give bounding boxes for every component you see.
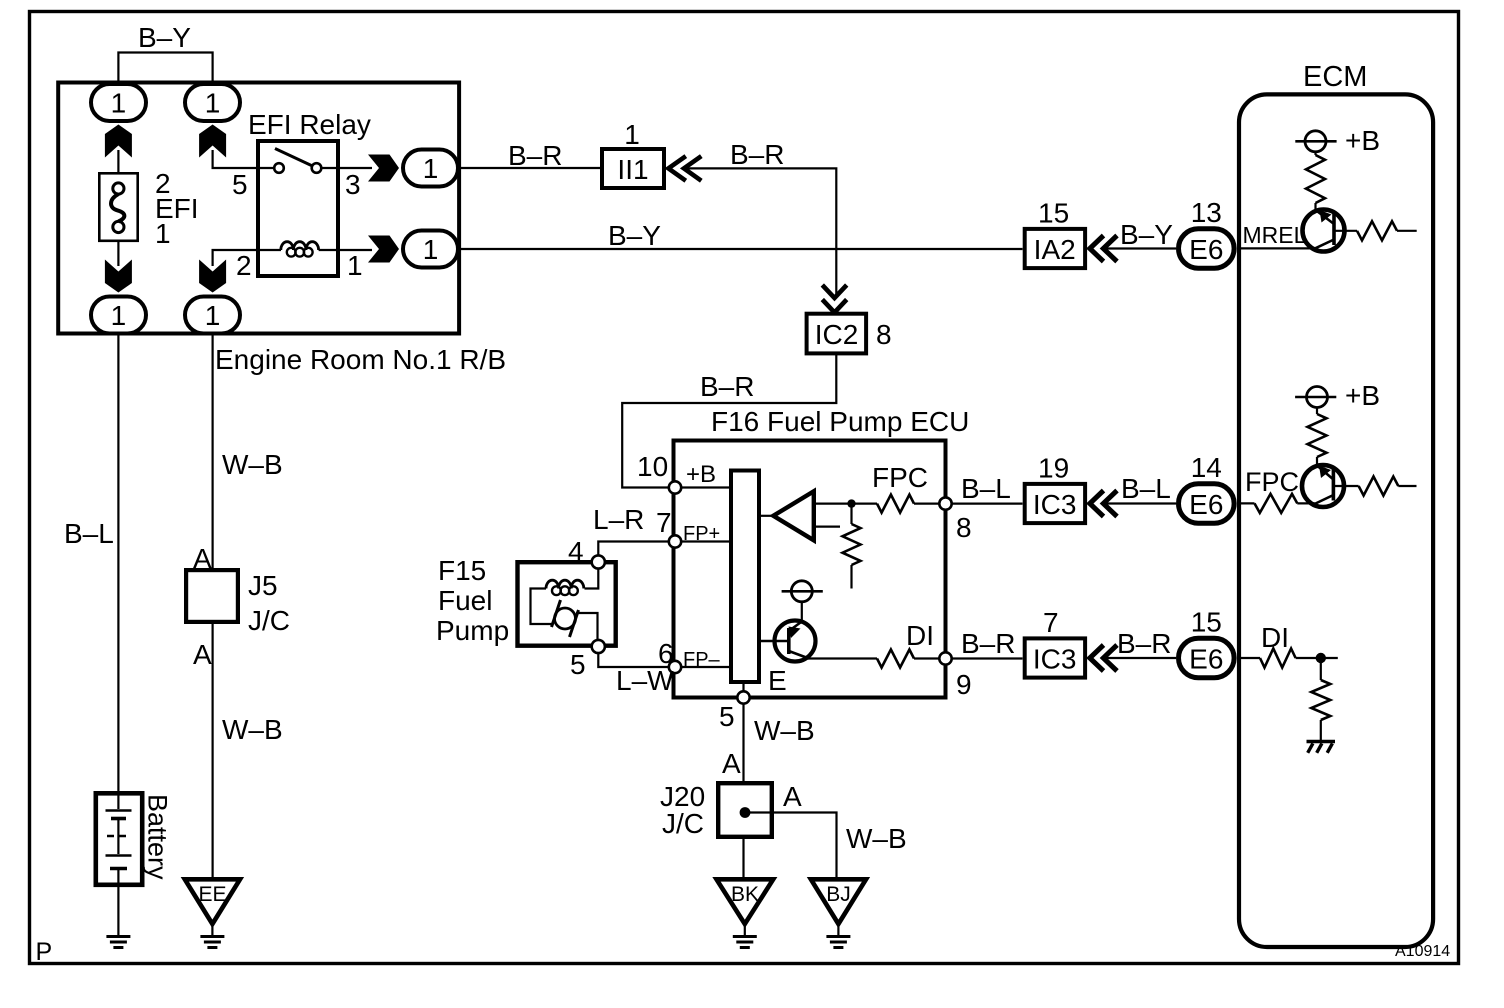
svg-text:EE: EE xyxy=(198,883,226,906)
resistor (+B to Q3) xyxy=(1308,408,1327,467)
ECU internal IC bar xyxy=(731,471,759,683)
wire MREL xyxy=(1237,247,1316,249)
svg-text:IC3: IC3 xyxy=(1033,644,1077,675)
svg-text:15: 15 xyxy=(1191,607,1222,638)
wire B-R (pin 9 to IC3) xyxy=(952,657,1023,659)
ECM box xyxy=(1239,61,1433,947)
wire to IC3 pin 19 xyxy=(1105,502,1176,504)
chevron arrows into IC3 xyxy=(1090,491,1117,517)
svg-text:1: 1 xyxy=(111,300,127,331)
svg-text:B–L: B–L xyxy=(64,518,114,549)
svg-text:A: A xyxy=(783,781,802,812)
svg-text:IA2: IA2 xyxy=(1034,234,1076,265)
svg-text:5: 5 xyxy=(570,649,586,680)
svg-text:E6: E6 xyxy=(1189,489,1223,520)
svg-text:+B: +B xyxy=(686,461,716,488)
pump internal wiring xyxy=(531,568,599,640)
svg-text:W–B: W–B xyxy=(846,823,907,854)
wire to IA2 pin 15 xyxy=(1105,247,1176,249)
wire B-R (II1 to IC2) xyxy=(687,168,836,296)
wire to IC3 pin 7 xyxy=(1105,657,1176,659)
svg-text:FPC: FPC xyxy=(1245,467,1299,497)
svg-text:1: 1 xyxy=(423,234,439,265)
svg-text:IC3: IC3 xyxy=(1033,489,1077,520)
arrow right into connector (pin1 row) xyxy=(368,236,399,263)
svg-text:FP+: FP+ xyxy=(683,523,720,545)
ground EE xyxy=(185,879,240,947)
resistor (Q3 base) xyxy=(1333,477,1416,496)
ground BJ xyxy=(811,879,866,947)
connector 1 (bottom left) xyxy=(91,297,146,334)
svg-text:1: 1 xyxy=(423,153,439,184)
pin 6 FP- node xyxy=(658,638,729,673)
svg-text:B–Y: B–Y xyxy=(1120,219,1173,250)
svg-text:10: 10 xyxy=(637,451,668,482)
junction dot (DI) xyxy=(1316,653,1326,663)
connector 1 (bottom mid) xyxy=(185,297,240,334)
svg-text:15: 15 xyxy=(1038,198,1069,229)
pin 10 +B node xyxy=(637,451,729,494)
transistor Q2 (MREL driver) xyxy=(1303,210,1345,252)
battery xyxy=(96,791,142,887)
svg-text:+B: +B xyxy=(1345,125,1380,156)
svg-text:1: 1 xyxy=(205,88,221,119)
ground BK xyxy=(717,879,774,947)
arrow up into top-mid connector xyxy=(199,125,226,158)
svg-text:1: 1 xyxy=(111,88,127,119)
svg-text:Engine Room No.1 R/B: Engine Room No.1 R/B xyxy=(215,344,506,375)
junction connector J20 J/C xyxy=(660,781,772,839)
connector E6 pin 14 xyxy=(1179,452,1235,523)
svg-text:E6: E6 xyxy=(1189,234,1223,265)
svg-text:8: 8 xyxy=(876,319,892,350)
svg-text:DI: DI xyxy=(906,620,934,651)
resistor (DI input) xyxy=(1237,649,1338,668)
svg-text:14: 14 xyxy=(1191,452,1222,483)
svg-text:B–R: B–R xyxy=(730,139,784,170)
power +B symbol (MREL driver) xyxy=(1295,125,1380,156)
wire relay pin2 xyxy=(213,250,256,266)
transistor Q3 (FPC driver) xyxy=(1302,465,1344,507)
svg-text:13: 13 xyxy=(1191,197,1222,228)
connector IC3 pin 19 xyxy=(1025,453,1085,524)
pump pin 4 node xyxy=(568,536,605,569)
pin E node 5 xyxy=(719,665,787,732)
svg-text:J/C: J/C xyxy=(248,605,290,636)
wire W-B (E pin to J20/BK) xyxy=(742,704,744,878)
svg-text:A: A xyxy=(193,639,212,670)
wire battery to ground xyxy=(117,887,119,936)
svg-text:J/C: J/C xyxy=(662,808,704,839)
connector IC2 pin 8 xyxy=(807,314,892,354)
pin 7 FP+ node xyxy=(656,507,729,548)
svg-text:FPC: FPC xyxy=(872,462,928,493)
wire relay pin5 xyxy=(213,150,256,168)
connector 1 (relay output B-R) xyxy=(403,150,458,187)
transistor Q1 (in ECU) xyxy=(761,621,816,662)
svg-text:W–B: W–B xyxy=(754,715,815,746)
resistor (DI pulldown) xyxy=(1311,658,1330,742)
junction block Engine Room No.1 R/B xyxy=(58,83,506,376)
svg-text:DI: DI xyxy=(1261,622,1289,653)
svg-text:Pump: Pump xyxy=(436,615,509,646)
wire B-R (IC2 to fuel pump ECU +B) xyxy=(622,355,836,488)
svg-text:B–R: B–R xyxy=(1117,628,1171,659)
wire W-B (J20 to BJ) xyxy=(745,813,837,878)
wire W-B junction run xyxy=(212,336,214,878)
arrow right into connector (pin3 row) xyxy=(368,155,399,182)
svg-text:A10914: A10914 xyxy=(1395,943,1450,960)
svg-text:Battery: Battery xyxy=(143,794,173,880)
wire fuse column xyxy=(117,150,119,184)
connector 1 (relay output B-Y) xyxy=(403,231,458,268)
wire L-W (pump pin 5 to FP-) xyxy=(598,654,669,668)
chevron arrows into IA2 xyxy=(1090,236,1117,262)
svg-text:B–Y: B–Y xyxy=(138,22,191,53)
arrow down into bottom-mid connector xyxy=(199,260,226,293)
svg-text:L–W: L–W xyxy=(616,665,674,696)
connector 1 (top left) xyxy=(91,84,146,121)
svg-text:E6: E6 xyxy=(1189,644,1223,675)
svg-text:II1: II1 xyxy=(617,154,648,185)
arrow down into bottom-left connector xyxy=(105,260,132,293)
svg-text:19: 19 xyxy=(1038,453,1069,484)
resistor FPC (in ECU) xyxy=(852,495,941,513)
svg-text:EFI Relay: EFI Relay xyxy=(248,109,371,140)
junction connector J5 J/C xyxy=(186,570,290,636)
svg-text:E: E xyxy=(768,665,787,696)
resistor (+B to Q2) xyxy=(1306,152,1325,211)
svg-text:3: 3 xyxy=(345,169,361,200)
svg-text:1: 1 xyxy=(347,250,363,281)
svg-text:W–B: W–B xyxy=(222,449,283,480)
resistor (Q2 base) xyxy=(1334,221,1417,240)
svg-text:FP–: FP– xyxy=(683,649,721,671)
svg-text:4: 4 xyxy=(568,536,584,567)
svg-text:8: 8 xyxy=(956,512,972,543)
collector supply symbol (circle) xyxy=(782,581,823,622)
connector E6 pin 13 xyxy=(1179,197,1235,268)
wire relay pin3 to connector xyxy=(340,167,372,169)
svg-text:9: 9 xyxy=(956,669,972,700)
fuel pump F15 box xyxy=(436,555,616,646)
svg-text:Fuel: Fuel xyxy=(438,585,492,616)
chevron arrows into IC2 xyxy=(822,285,846,313)
connector E6 pin 15 xyxy=(1179,607,1235,678)
svg-text:5: 5 xyxy=(232,169,248,200)
wire B-Y jumper loop xyxy=(118,53,212,85)
svg-text:1: 1 xyxy=(624,119,640,150)
wire B-Y (relay to IA2) xyxy=(461,248,1023,250)
svg-text:B–L: B–L xyxy=(961,473,1011,504)
svg-text:B–R: B–R xyxy=(700,371,754,402)
ECU F16 Fuel Pump ECU box xyxy=(674,406,970,698)
relay switch contact xyxy=(256,149,340,173)
svg-text:F15: F15 xyxy=(438,555,486,586)
junction dot (J20) xyxy=(740,807,751,818)
wire relay pin1 to connector xyxy=(340,249,372,251)
svg-text:2: 2 xyxy=(236,250,252,281)
resistor (op-amp bias, vertical) xyxy=(843,504,861,589)
svg-text:1: 1 xyxy=(205,300,221,331)
wire B-L battery feed xyxy=(117,336,119,793)
wire DI (transistor to pin 9) xyxy=(806,657,877,659)
label 2 EFI 1 (fuse) xyxy=(155,168,199,249)
relay EFI Relay xyxy=(248,109,371,276)
resistor (FPC input) xyxy=(1237,494,1315,513)
arrow up into top-left connector xyxy=(105,125,132,158)
wire L-R (FP+ to pump pin 4) xyxy=(598,542,669,556)
chevron arrows into II1 xyxy=(668,156,701,181)
svg-text:MREL: MREL xyxy=(1243,222,1307,248)
relay coil xyxy=(256,242,340,257)
op-amp U1 xyxy=(761,491,852,540)
resistor DI (in ECU) xyxy=(877,650,940,668)
svg-text:IC2: IC2 xyxy=(815,319,859,350)
pump pin 5 node xyxy=(570,640,605,680)
wire B-L (pin 8 to IC3) xyxy=(952,503,1023,505)
svg-text:5: 5 xyxy=(719,701,735,732)
svg-text:J5: J5 xyxy=(248,570,278,601)
connector IA2 pin 15 xyxy=(1025,198,1085,269)
svg-text:1: 1 xyxy=(155,218,171,249)
chevron arrows into IC3 xyxy=(1090,645,1117,671)
svg-text:7: 7 xyxy=(656,507,672,538)
pump motor xyxy=(552,600,579,637)
svg-text:ECM: ECM xyxy=(1303,61,1367,93)
wire B-R (connector to II1) xyxy=(461,167,601,169)
svg-text:BK: BK xyxy=(731,883,759,906)
svg-text:B–R: B–R xyxy=(508,140,562,171)
ground (ECM internal) xyxy=(1307,742,1336,753)
svg-text:BJ: BJ xyxy=(826,883,851,906)
connector IC3 pin 7 xyxy=(1025,607,1085,678)
connector II1 xyxy=(602,149,664,188)
fuse EFI No.1 xyxy=(99,173,137,241)
svg-text:B–Y: B–Y xyxy=(608,220,661,251)
power +B symbol (FPC driver) xyxy=(1295,380,1380,411)
svg-text:L–R: L–R xyxy=(593,504,644,535)
svg-text:B–R: B–R xyxy=(961,628,1015,659)
svg-text:B–L: B–L xyxy=(1121,473,1171,504)
ground (battery) xyxy=(106,937,130,948)
connector 1 (top mid) xyxy=(185,84,240,121)
svg-text:P: P xyxy=(36,938,53,966)
svg-text:+B: +B xyxy=(1345,380,1380,411)
svg-text:7: 7 xyxy=(1043,607,1059,638)
junction dot (FPC line) xyxy=(847,499,855,507)
pin 8 node xyxy=(939,497,971,543)
pin 9 node xyxy=(939,652,971,700)
svg-text:F16 Fuel Pump ECU: F16 Fuel Pump ECU xyxy=(711,406,969,437)
svg-text:W–B: W–B xyxy=(222,714,283,745)
svg-text:A: A xyxy=(722,748,741,779)
